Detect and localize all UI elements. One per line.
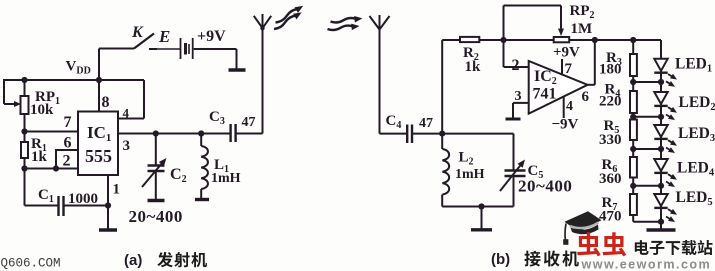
node pin6-pin2: [53, 165, 59, 171]
svg-text:1M: 1M: [571, 21, 593, 37]
wire tank gnd drop: [481, 207, 483, 230]
resistor R2: [460, 37, 479, 42]
wire R5-R6: [632, 140, 634, 157]
svg-text:(b): (b): [491, 251, 510, 268]
op-amp U2 741: [529, 61, 588, 114]
wire LED chain: [660, 40, 662, 59]
node R1-C1: [21, 165, 27, 171]
svg-text:3: 3: [515, 89, 522, 104]
svg-text:555: 555: [85, 146, 112, 166]
capacitor C1: [57, 196, 59, 216]
wire R3-R4: [632, 76, 634, 91]
wire pin4: [143, 80, 145, 119]
node R3-R4: [630, 79, 636, 85]
wire ant to C4: [380, 133, 407, 135]
svg-text:330: 330: [599, 132, 622, 148]
wire switch riser: [98, 49, 100, 81]
svg-text:20~400: 20~400: [518, 177, 572, 196]
antenna TX: [262, 27, 264, 134]
wire pin2 run: [25, 168, 79, 170]
wire tank top: [442, 133, 513, 135]
wire battery out: [194, 48, 237, 50]
node C1-pin1: [105, 202, 111, 208]
wire to battery: [157, 48, 180, 50]
svg-text:Q606.COM: Q606.COM: [1, 257, 61, 271]
wire R4-R5: [632, 113, 634, 120]
wire C5 bottom: [513, 177, 515, 207]
svg-text:3: 3: [123, 138, 131, 154]
caption 接收机: [524, 251, 540, 267]
LED LED4: [654, 159, 667, 171]
svg-text:2: 2: [512, 57, 520, 74]
wire RP1 wiper: [4, 103, 16, 105]
svg-text:4: 4: [566, 99, 573, 114]
wire pin6 stub: [56, 149, 78, 151]
resistor R4: [630, 91, 637, 113]
wire pin2 drop: [503, 40, 505, 67]
wire R6-R7: [632, 178, 634, 195]
svg-text:LED1: LED1: [675, 56, 712, 75]
logo 虫虫: [577, 232, 601, 256]
wire pin7: [25, 131, 79, 133]
svg-text:6: 6: [582, 89, 590, 105]
node C2 tap: [153, 130, 159, 136]
svg-text:1mH: 1mH: [455, 167, 485, 182]
potentiometer RP1: [24, 80, 26, 96]
svg-text:4: 4: [123, 106, 130, 121]
switch K contact: [149, 48, 157, 50]
svg-text:7: 7: [64, 114, 72, 131]
wire pin8: [98, 80, 100, 112]
node output junction: [592, 37, 598, 43]
antenna RX: [379, 29, 381, 134]
wire tap2: [633, 116, 661, 118]
node L1 tap: [198, 130, 204, 136]
variable capacitor C2: [148, 164, 165, 166]
wire L1 gnd: [200, 189, 202, 199]
variable capacitor C5: [505, 169, 526, 171]
ground C2: [148, 199, 165, 202]
node R ladder top: [630, 37, 636, 43]
wire C1 drop: [24, 168, 26, 206]
svg-text:E: E: [158, 27, 170, 46]
wire tank bottom: [442, 206, 513, 208]
LED LED5: [654, 194, 667, 206]
node R5-R6: [630, 146, 636, 152]
node led4: [658, 183, 664, 189]
node C4-tank: [439, 131, 445, 137]
svg-text:+9V: +9V: [553, 45, 580, 61]
wire R2 in: [442, 39, 460, 41]
wire L1 top: [200, 134, 202, 147]
wire input riser: [441, 40, 443, 134]
node Vdd-switch: [96, 77, 102, 83]
wire R2 out: [479, 39, 553, 41]
potentiometer RP2: [554, 37, 570, 42]
svg-text:LED3: LED3: [678, 125, 715, 144]
wire Vdd rail: [4, 79, 144, 81]
IC U1 555 box: [78, 112, 118, 176]
svg-text:47: 47: [419, 116, 433, 131]
node led2: [658, 114, 664, 120]
wire L2 top: [441, 134, 443, 149]
svg-text:−9V: −9V: [552, 117, 579, 133]
svg-text:+9V: +9V: [197, 28, 226, 45]
svg-text:741: 741: [533, 86, 557, 103]
wire RP2 out: [569, 39, 633, 41]
wire C2 gnd: [155, 172, 157, 201]
resistor R7: [630, 194, 637, 215]
wire tap4: [633, 185, 661, 187]
resistor R6: [630, 157, 637, 178]
wire pin6 out: [588, 84, 595, 86]
ground LED chain: [647, 228, 676, 231]
svg-text:7: 7: [565, 61, 573, 77]
wire C5 top: [513, 134, 515, 170]
battery E: [180, 38, 182, 59]
wire pin6-pin2 tie: [55, 149, 57, 169]
ground pin3: [506, 118, 521, 121]
wire pin4 stub: [563, 96, 565, 118]
svg-text:470: 470: [599, 209, 622, 225]
wire C3 out: [236, 133, 263, 135]
LED LED3: [654, 125, 667, 137]
node tank gnd: [478, 203, 484, 209]
wire C1 out: [64, 205, 109, 207]
logo 电子下载站: [635, 240, 649, 255]
wire L2 bottom: [441, 195, 443, 207]
ground pin1: [99, 228, 117, 231]
LED LED1: [654, 59, 667, 71]
wire pin3 run: [118, 133, 230, 135]
wire R7 bottom: [632, 215, 634, 222]
inductor L2: [442, 149, 449, 195]
node led5: [658, 219, 664, 225]
capacitor C3: [229, 124, 231, 142]
wire C2 drop: [155, 134, 157, 166]
svg-text:360: 360: [599, 171, 622, 187]
LED LED2: [654, 92, 667, 104]
svg-text:180: 180: [599, 62, 622, 78]
svg-text:LED2: LED2: [679, 94, 715, 113]
wire ladder: [632, 40, 634, 54]
node Vdd-RP1: [21, 77, 27, 83]
svg-text:(a): (a): [124, 252, 142, 269]
svg-text:6: 6: [64, 135, 72, 152]
capacitor C4: [406, 125, 408, 144]
wire C4 out: [412, 133, 442, 135]
wire pin7 stub: [561, 59, 563, 75]
svg-text:LED5: LED5: [676, 189, 713, 208]
svg-text:220: 220: [599, 94, 622, 110]
node pin2 junction: [500, 37, 506, 43]
node RP1-R1: [21, 128, 27, 134]
svg-text:2: 2: [63, 153, 71, 170]
resistor R1: [24, 132, 26, 143]
wire pin3: [513, 102, 529, 104]
logo cap: [565, 211, 602, 232]
wire Vdd left drop: [3, 79, 5, 104]
radio waves TX: [276, 9, 299, 23]
svg-text:K: K: [131, 24, 144, 41]
switch K blade: [134, 34, 154, 49]
wire tap1: [633, 81, 661, 83]
inductor L1: [201, 146, 208, 189]
svg-text:47: 47: [242, 115, 256, 130]
resistor R5: [630, 120, 637, 141]
radio waves RX: [331, 18, 357, 23]
svg-text:www.eeworm.com: www.eeworm.com: [581, 257, 712, 271]
svg-text:20~400: 20~400: [129, 207, 183, 226]
ground tank: [471, 228, 492, 231]
svg-text:1mH: 1mH: [211, 171, 241, 186]
node R6-R7: [630, 183, 636, 189]
svg-text:10k: 10k: [30, 102, 54, 118]
wire feedback: [503, 6, 505, 41]
node led1: [658, 79, 664, 85]
resistor R3: [630, 54, 637, 76]
ground L1: [195, 198, 209, 201]
wire top rail rx: [633, 39, 661, 41]
ground battery: [229, 68, 246, 71]
caption 发射机: [157, 252, 173, 267]
node led3: [658, 146, 664, 152]
wire tap3: [633, 148, 661, 150]
svg-text:1k: 1k: [465, 59, 482, 75]
node R4-R5: [630, 114, 636, 120]
svg-text:1k: 1k: [31, 149, 48, 165]
svg-text:8: 8: [102, 94, 110, 111]
svg-text:1: 1: [113, 182, 121, 198]
wire pin1: [107, 175, 109, 230]
